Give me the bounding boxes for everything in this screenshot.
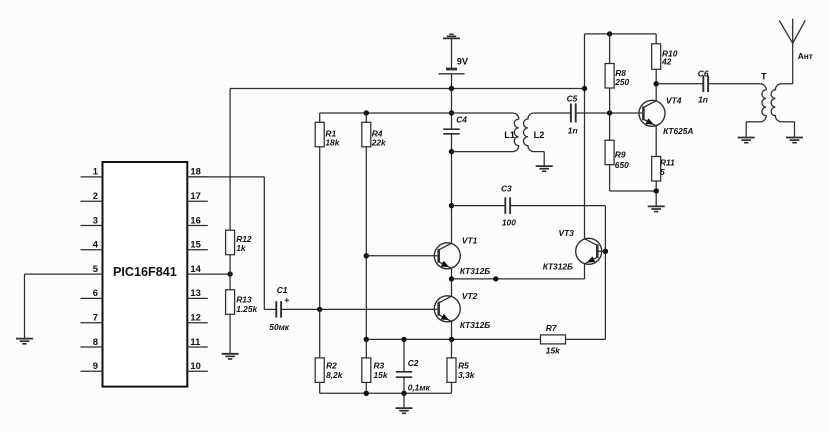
wire +9V supply rail [230,88,584,90]
node R9/R11 ground [654,188,659,193]
IC left pin 5 [81,263,103,274]
inductor L2 [523,113,544,152]
node emitter bridge [449,276,454,281]
wire to center ground [403,393,405,408]
svg-text:2: 2 [93,190,98,201]
wire VT2 emitter down [451,321,453,339]
svg-text:C6: C6 [698,68,709,78]
svg-text:PIC16F841: PIC16F841 [113,265,177,279]
capacitor C5 [567,93,578,135]
wire R8 to base node [609,88,611,140]
IC right pin 11 [187,336,208,347]
svg-text:9: 9 [93,360,98,371]
node C3 tap [449,203,454,208]
svg-text:L2: L2 [534,130,545,140]
wire VT4 emitter to R11 [655,126,657,157]
resistor R9 [605,140,629,170]
node VT3 base [603,249,608,254]
wire R2 bottom [319,382,321,393]
IC left pin 7 [81,312,103,323]
svg-text:C2: C2 [408,358,419,368]
node on emitter bridge [493,276,498,281]
node pin14/R12/R13 [227,271,232,276]
node VT1 base [364,253,369,258]
wire VT4 collector to C6 [656,83,703,85]
IC right pin 16 [187,214,208,225]
wire R9 to ground wire [610,165,657,191]
svg-text:C1: C1 [277,285,288,295]
wire C4 bottom [451,134,453,244]
wire C5 to VT4 base [576,112,644,114]
svg-text:3: 3 [93,214,98,225]
svg-text:VT1: VT1 [462,236,478,246]
wire R13 to ground [229,314,231,353]
resistor R12 [226,230,252,255]
IC right pin 10 [187,360,208,371]
node C4 top / tank wire [449,110,454,115]
wire lower ground bus [320,392,452,394]
node R8 top [607,31,612,36]
svg-text:18k: 18k [325,138,339,148]
svg-text:10: 10 [190,360,200,371]
resistor R1 [315,113,340,148]
wire VT3 emitter down [584,264,586,279]
IC left pin 6 [81,287,103,298]
resistor R5 [447,339,475,382]
svg-text:7: 7 [93,312,98,323]
IC right pin 13 [187,287,208,298]
transistor VT1 [434,236,490,277]
svg-text:16: 16 [190,214,200,225]
svg-text:1n: 1n [698,94,708,104]
wire L2 bottom to ground [534,152,544,166]
IC left pin 1 [81,166,103,177]
svg-text:50мк: 50мк [269,322,290,332]
resistor R10 [652,34,678,69]
inductor L1 [504,113,518,152]
resistor R4 [362,113,386,148]
svg-text:18: 18 [190,166,200,177]
IC right pin 18 [187,166,208,177]
svg-text:42: 42 [661,57,672,67]
IC left pin 9 [81,360,103,371]
wire R3 bottom [365,382,367,393]
IC right pin 14 [187,263,208,274]
ground under R11 [648,206,665,211]
svg-text:C5: C5 [567,93,578,103]
wire R12 to R13 [229,255,231,290]
IC right pin 12 [187,312,208,323]
IC left pin 8 [81,336,103,347]
transistor VT3 (mirrored) [543,228,602,271]
wire pin14 to R12/R13 node [208,273,230,275]
svg-text:650: 650 [615,160,629,170]
node R4 top [364,110,369,115]
svg-text:R13: R13 [236,295,252,305]
resistor R2 [315,309,343,382]
node VT2 emitter / R5 [449,337,454,342]
svg-text:VT2: VT2 [462,291,478,301]
capacitor C3 [501,183,516,227]
svg-text:КТ312Б: КТ312Б [460,266,490,276]
ground under L2 [536,166,553,171]
wire pin5 to ground [25,274,81,338]
wire VT1 emitter / VT2 collector [451,268,453,296]
IC left pin 2 [81,190,103,201]
capacitor C1 [264,285,290,332]
svg-text:КТ312Б: КТ312Б [460,320,490,330]
svg-text:12: 12 [190,312,200,323]
battery GB1 9V [439,57,469,74]
wire VT3 base to node [597,250,605,252]
node C2 top [401,337,406,342]
svg-text:100: 100 [502,218,516,228]
wire VT2 base (from C1) [282,308,439,310]
wire VT1 base [366,255,438,257]
wire T secondary top to antenna [781,43,792,84]
svg-text:15k: 15k [546,345,560,355]
node VT4 base / R8 R9 [607,110,612,115]
ground at pin5 [16,339,33,344]
wire C3 left [452,205,505,207]
svg-text:5: 5 [93,263,98,274]
wire L2 top to C5 [534,112,571,114]
wire battery to rail [451,74,453,89]
svg-text:R11: R11 [660,157,675,167]
wire top rail (VT3 collector to R10) [585,33,657,35]
svg-text:22k: 22k [371,138,386,148]
node battery/rail [449,86,454,91]
svg-text:1n: 1n [568,125,578,135]
wire pin18 to C1 (down at x=264) [187,177,264,310]
wire R4 to VT1 base node [365,147,367,340]
node C2 bottom [401,391,406,396]
svg-text:4: 4 [93,239,99,250]
wire C6 to T [708,83,760,85]
svg-text:8: 8 [93,336,98,347]
resistor R11 [652,157,675,182]
transformer T primary [760,72,767,122]
wire R5 bottom [451,382,453,393]
transistor VT2 [434,291,490,330]
ground under T secondary [786,138,803,143]
wire R1 to VT2 base node [319,147,321,310]
IC left pin 4 [81,239,103,250]
resistor R8 [605,34,629,88]
wire R10 to VT4 collector [655,69,657,101]
wire C3 to VT3 base / R7 [510,206,605,340]
svg-text:T: T [761,72,767,82]
resistor R3 [362,339,388,382]
transistor VT4 [639,96,693,137]
ground under T primary [738,138,755,143]
IC left pin 3 [81,214,103,225]
svg-text:11: 11 [190,336,200,347]
antenna Ант [779,19,813,61]
svg-text:0,1мк: 0,1мк [408,382,431,392]
ground above battery (inverted) [443,34,460,38]
IC U1 PIC16F841 body [103,162,188,387]
svg-text:13: 13 [190,287,200,298]
wire emitter bridge to VT3 [452,278,585,280]
wire +9V rail to R12 [229,89,231,231]
svg-text:C3: C3 [501,183,512,193]
resistor R13 [226,290,258,315]
capacitor C6 [698,68,709,104]
capacitor C2 [396,339,431,393]
svg-text:1: 1 [93,166,98,177]
node R3 bottom [364,391,369,396]
wire rail to C4 [451,89,453,130]
wire C4 bottom to L1 [452,151,513,153]
svg-text:17: 17 [190,190,200,201]
svg-text:VT4: VT4 [666,96,682,106]
resistor R7 [541,323,566,356]
wire T secondary bottom to ground [781,122,794,137]
svg-text:L1: L1 [504,130,515,140]
svg-text:Ант: Ант [798,51,813,61]
wire tank top (R1..L1) [320,112,513,114]
svg-text:15: 15 [190,239,200,250]
capacitor C4 [443,115,467,134]
svg-text:КТ312Б: КТ312Б [543,262,573,272]
IC right pin 15 [187,239,208,250]
node VT4 collector / C6 [654,81,659,86]
node C4/L1 bottom [449,149,454,154]
transformer T secondary [771,84,781,122]
wire VT3 collector riser [584,34,586,239]
svg-text:R7: R7 [546,323,557,333]
svg-text:C4: C4 [456,115,467,125]
svg-text:VT3: VT3 [559,228,575,238]
ground under C2 [396,408,413,413]
svg-text:1k: 1k [236,243,246,253]
wire T primary bottom to ground [746,122,760,137]
svg-text:5: 5 [660,167,665,177]
svg-text:8,2k: 8,2k [326,370,343,380]
svg-text:КТ625А: КТ625А [663,126,693,136]
ground under R13 [222,354,239,359]
svg-text:9V: 9V [457,57,469,67]
svg-text:15k: 15k [374,370,388,380]
svg-text:250: 250 [614,77,629,87]
svg-text:6: 6 [93,287,98,298]
IC right pin 17 [187,190,208,201]
svg-text:1.25k: 1.25k [236,304,257,314]
node R1/R2 at VT2 base wire [317,307,322,312]
svg-text:14: 14 [190,263,201,274]
node +9V rail / VT3 collector [582,86,587,91]
wire ground to battery [451,38,453,68]
wire R11 to ground [655,181,657,206]
svg-text:R9: R9 [615,150,626,160]
wire bottom bias bus [366,338,605,340]
svg-text:3,3k: 3,3k [458,370,475,380]
node R3 top [364,337,369,342]
